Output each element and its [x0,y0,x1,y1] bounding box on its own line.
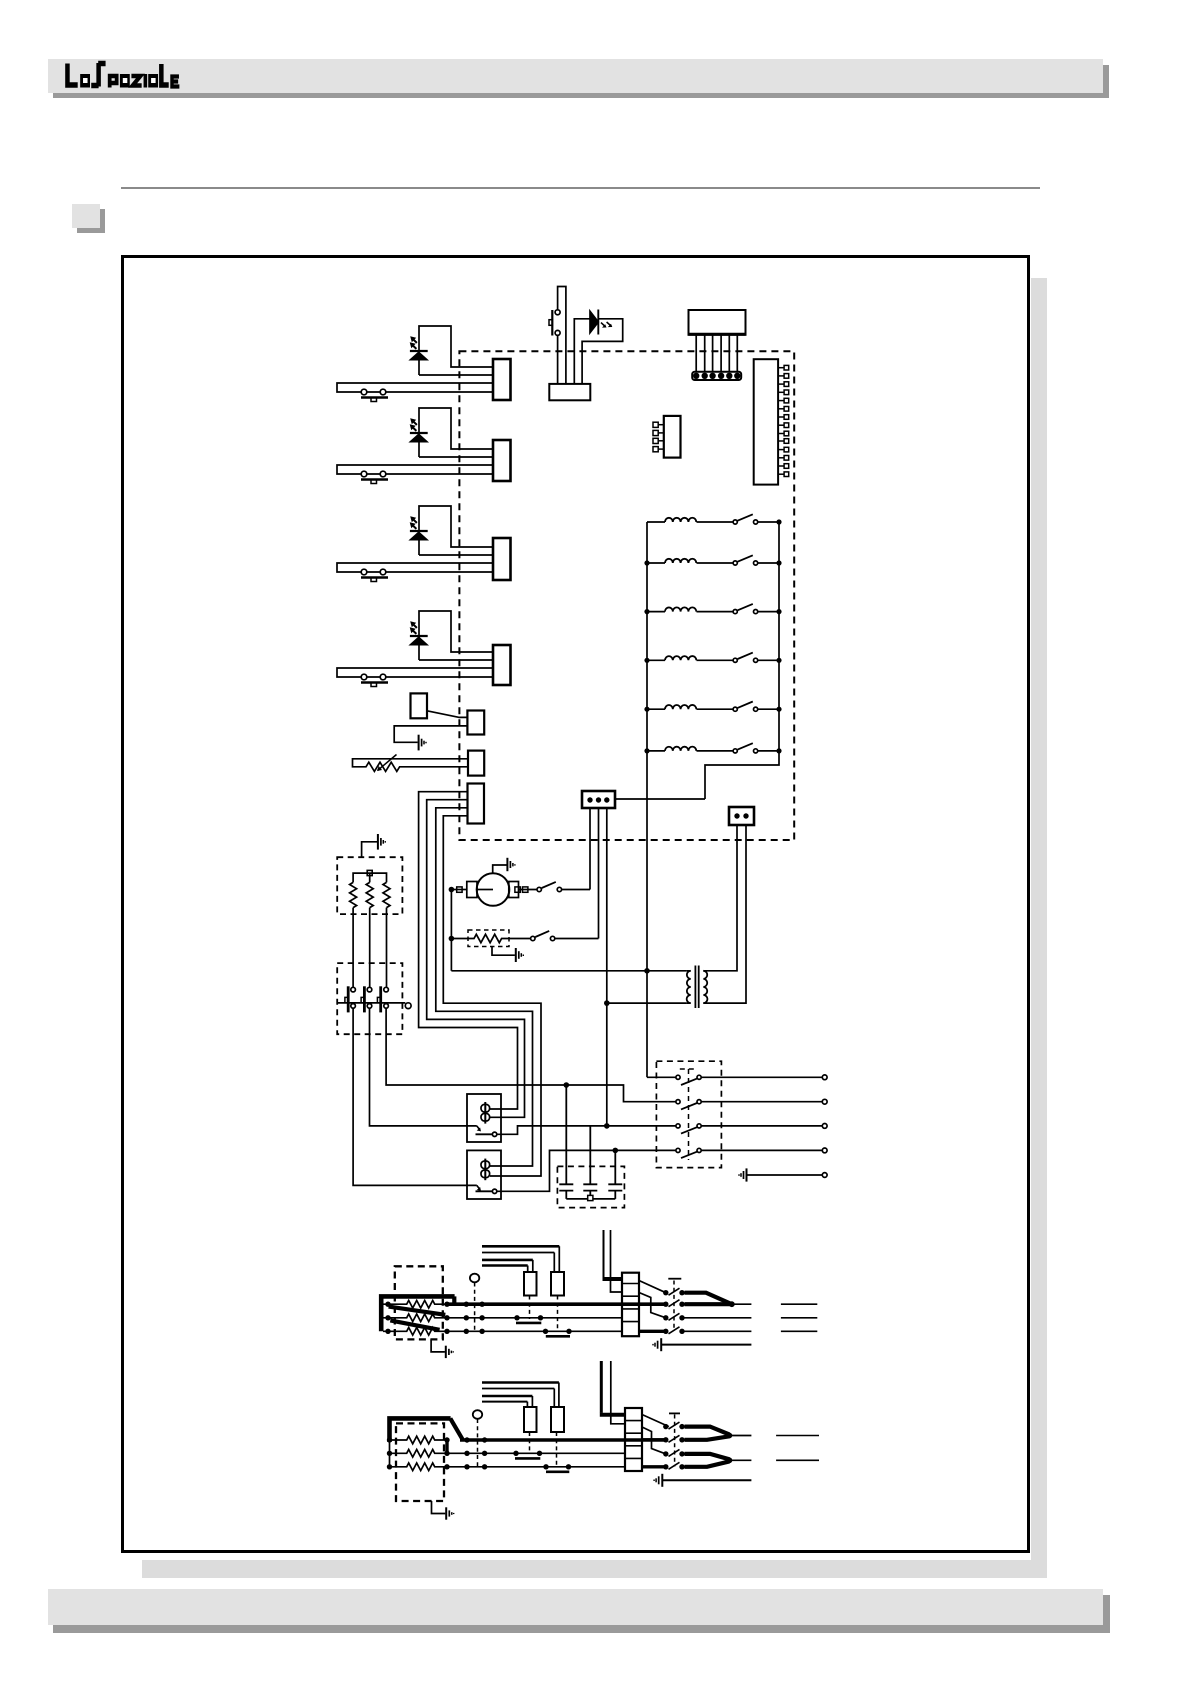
capacitor C2 [583,1126,597,1196]
microswitch SW2 lever [361,478,388,480]
LED DL5 return wire [582,319,623,384]
microswitch SW3 contacts [361,569,367,575]
pump motor M [477,873,510,906]
left rail wire [646,522,648,1077]
14-pin connector J2 [754,359,778,484]
LED DL1 [410,336,428,359]
bus wire 2 [427,800,525,1118]
boiler1 ground stub [431,1339,445,1352]
pressure switch resistor [451,934,530,942]
grey bullet square [77,209,105,233]
boiler2 element R5 [390,1450,448,1458]
group button 4 wiring loop [419,611,493,660]
wire J5 pin2 to secondary [703,825,746,1003]
main switch pole 3 [676,1124,680,1128]
microswitch SW1 lever [361,396,388,398]
capacitor C1 [559,1085,573,1199]
connector CN4 [493,645,511,685]
variable resistor arrow [378,755,397,771]
group button 2 wiring loop [419,408,493,457]
LED DL5 cathode bar [597,310,599,335]
connector CN8 [468,784,485,824]
boiler1 connector K1 [622,1273,639,1337]
separator line [121,187,1040,189]
4-pin block J3 [664,416,681,458]
LED DL5 lead [574,319,590,384]
wire to primary [451,970,686,972]
motor terminals right [519,889,537,891]
node primary tap [644,968,650,974]
wire motor feed down [450,890,452,971]
boiler1 feed wires from top [603,1230,605,1277]
connector CN6 [467,711,484,735]
node motor feed [449,887,455,893]
heater coil 1 [350,882,357,907]
relay coil L5 row [647,702,779,712]
microswitch SW2 contacts [361,471,367,477]
contactor pole 3 [384,987,389,992]
connector CN1 [493,359,511,400]
J2 pins [778,365,789,476]
control board dashed outline [459,351,794,840]
ground probe [419,735,426,751]
pump switch [537,887,541,891]
relay RL1 box [467,1094,501,1142]
wire J4 pin2 to pressure switch [598,808,600,939]
boiler2 element R4 [390,1436,448,1444]
boiler2 breaker contacts [663,1424,685,1470]
boiler2 breaker link dashed [674,1415,676,1467]
node J4 pin3 joint [604,1123,610,1129]
node cap1 tap [564,1082,570,1088]
LED DL4 [410,621,428,644]
boiler2 ground [654,1474,662,1487]
footer grey bar [53,1595,1110,1633]
contactor dashed box [337,963,402,1034]
wire switch row1 feed [647,1076,676,1078]
relay RL1 arrow [477,1126,480,1130]
wire rail to J4 [615,798,705,800]
microswitch SW1 fork [337,383,493,392]
LaSpaziale logo [67,63,179,88]
contactor lead 2 down [370,1008,477,1126]
heater terminal [367,870,372,875]
capacitor dashed box [557,1166,624,1207]
boiler1 fuse links dashed [530,1296,558,1333]
boiler2 fan wire C thick [642,1438,666,1441]
relay RL1 coil [481,1104,490,1112]
LED DL5 diode [590,311,598,333]
boiler2 fuse block F3 [524,1407,537,1432]
boiler1 fan wire A [639,1281,666,1293]
bus wire 3 [436,808,533,1166]
connector CN5 (button unit base) [549,384,590,400]
main switch pole 1 [676,1075,680,1079]
microswitch SW4 contacts [361,674,367,680]
boiler1 jumper 2 thick [390,1320,439,1329]
boiler2 element R6 [390,1463,448,1471]
relay RL2 box [467,1150,501,1199]
main frame shadow [1031,278,1047,1578]
microswitch SW4 fork [337,668,493,677]
boiler1 element R2 [383,1314,447,1322]
boiler2 left bus [389,1440,391,1467]
relay RL1 contact [476,1133,493,1135]
J3 pins [653,422,664,452]
boiler2 connector K2 [625,1408,642,1471]
boiler1 jumper 1 thick [389,1307,446,1315]
pressure switch dashed box [468,930,509,947]
contactor lead 1 down [353,1008,477,1185]
boiler2 lamp link dashed [477,1419,479,1467]
boiler2 supply wire thick [390,1418,451,1442]
boiler2 output wires [729,1436,751,1461]
boiler2 right bus thick [445,1440,448,1453]
boiler2 fan wire B [642,1427,666,1454]
heater coil 2 [366,882,373,907]
boiler2 output stubs [776,1436,819,1461]
connector CN2 [493,440,511,481]
pressure switch ground [492,947,515,956]
wire J4 pin3 down [606,808,608,1126]
boiler1 thermostat T1 [514,1315,519,1320]
wire primary bottom [607,1002,687,1004]
boiler1 fuse block F1 [524,1272,537,1296]
boiler1 resistor dashed box [395,1266,443,1339]
push button SB1 lower lead [557,335,559,384]
main frame [123,257,1029,1552]
boiler1 row1 feed thick [447,1302,666,1306]
group button 1 wiring loop [419,326,493,375]
connector CN7 [468,751,484,776]
boiler1 output wires [685,1304,752,1331]
boiler1 fan wire D thick [639,1330,666,1333]
bus wire 1 [419,792,518,1109]
connector CN3 [493,538,511,580]
heater leads down [353,908,386,988]
wire pump switch to J4 [562,889,590,891]
microswitch SW1 contacts [361,389,367,395]
boiler1 output stubs [781,1304,817,1331]
boiler2 indicator lamp [473,1410,482,1419]
boiler1 row nodes [385,1302,485,1335]
right rail wire [705,522,779,799]
wire probe to CN6 [427,711,467,718]
transformer T1 core [695,966,698,1009]
boiler1 breaker link dashed [673,1281,675,1332]
probe box [411,693,428,718]
relay coil L3 row [647,604,779,614]
transformer T1 secondary [703,971,707,1003]
boiler1 wedge thick [685,1293,732,1305]
main switch pole 4 [676,1148,680,1152]
mains ground [739,1168,747,1181]
boiler1 lamp link dashed [474,1283,476,1332]
contactor lead 3 down [386,1008,676,1101]
boiler2 wedge 1 thick [685,1427,730,1435]
boiler2 resistor dashed box [396,1423,444,1501]
contactor actuator bar [337,1002,405,1004]
boiler2 row1 feed thick [460,1438,666,1442]
3-pin connector J4 [582,791,615,808]
boiler2 thermostat T3 [513,1451,518,1456]
motor terminal left [451,889,466,891]
contactor pole 1 [351,987,356,992]
relay RL2 output wire [497,1150,676,1191]
microswitch SW3 lever [361,576,388,578]
wires CPU to pin strip [696,335,737,372]
node cap3 tap [613,1148,619,1154]
header grey bar [53,65,1109,98]
wire J4 pin1 to pump switch [589,808,591,890]
LED DL5 arrows [601,322,611,327]
boiler2 row nodes [387,1437,488,1469]
wire pressure switch to J4 [555,938,599,940]
6-pin strip J1 [692,372,741,380]
boiler1 thermostat T2 [543,1329,548,1334]
main switch dashed box [656,1061,721,1167]
boiler1 fuse block F2 [551,1272,564,1296]
boiler1 element R3 [383,1328,447,1336]
variable resistor fork [353,759,468,772]
pressure switch contact [531,936,535,940]
heater bus wire [353,873,386,882]
ground boiler top [362,842,377,857]
heater element dashed box [337,857,402,914]
microswitch SW2 fork [337,465,493,474]
relay coil L6 row [647,743,779,753]
boiler1 ground [653,1338,661,1351]
boiler2 supply diag thick [450,1418,463,1439]
main switch pole 2 [676,1100,680,1104]
boiler2 fan wire A [642,1415,669,1427]
relay RL2 coil [481,1161,490,1169]
bus wire 4 [443,816,541,1176]
boiler1 supply wire thick [381,1296,454,1331]
LED DL3 [410,516,428,539]
main switch link [680,1069,697,1160]
boiler1 breaker contacts [663,1290,685,1334]
boiler1 indicator lamp [470,1274,479,1283]
LED DL2 [410,418,428,441]
boiler2 feed wires from top [600,1361,603,1413]
relay coil L4 row [647,653,779,663]
capacitor C3 [608,1150,622,1199]
boiler2 row2 wire [447,1452,625,1454]
motor ground [493,865,507,873]
boiler2 ground stub [432,1501,446,1514]
boiler1 row3 wire [447,1330,622,1332]
wires switch rows out [701,1077,822,1150]
boiler1 sensor wires [482,1246,559,1265]
boiler1 row2 wire [447,1317,622,1319]
heater coil 3 [383,882,390,907]
relay RL1 output wire [497,1126,676,1134]
relay coil L1 row [647,514,779,524]
boiler1 fan wire B [639,1293,666,1318]
wire J5 pin1 to secondary [703,825,737,971]
mains terminals [822,1075,827,1080]
contactor pole 2 [367,987,372,992]
control box CPU connector [689,310,746,335]
push button SB1 frame wire [558,287,566,384]
boiler2 wedge 2 thick [685,1454,730,1459]
boiler2 sensor wires [482,1383,559,1397]
boiler2 row3 wire [447,1466,625,1468]
2-pin connector J5 [729,807,754,825]
transformer T1 primary [687,971,691,1003]
push button SB1 actuator [551,310,553,336]
group button 3 wiring loop [419,506,493,555]
boiler2 fuse block F4 [551,1407,564,1432]
relay RL2 contact [476,1190,493,1192]
boiler2 fan wire D thick [642,1465,666,1468]
relay RL2 arrow [477,1185,480,1189]
wire CN6 pin2 [394,726,467,742]
push button SB1 contacts [555,310,560,315]
boiler1 element R1 [383,1300,447,1308]
microswitch SW3 fork [337,563,493,572]
boiler2 thermostat T4 [543,1464,548,1469]
relay coil L2 row [647,555,779,565]
microswitch SW4 lever [361,681,388,683]
capacitor bus [566,1198,615,1200]
boiler2 fuse links dashed [530,1432,557,1468]
